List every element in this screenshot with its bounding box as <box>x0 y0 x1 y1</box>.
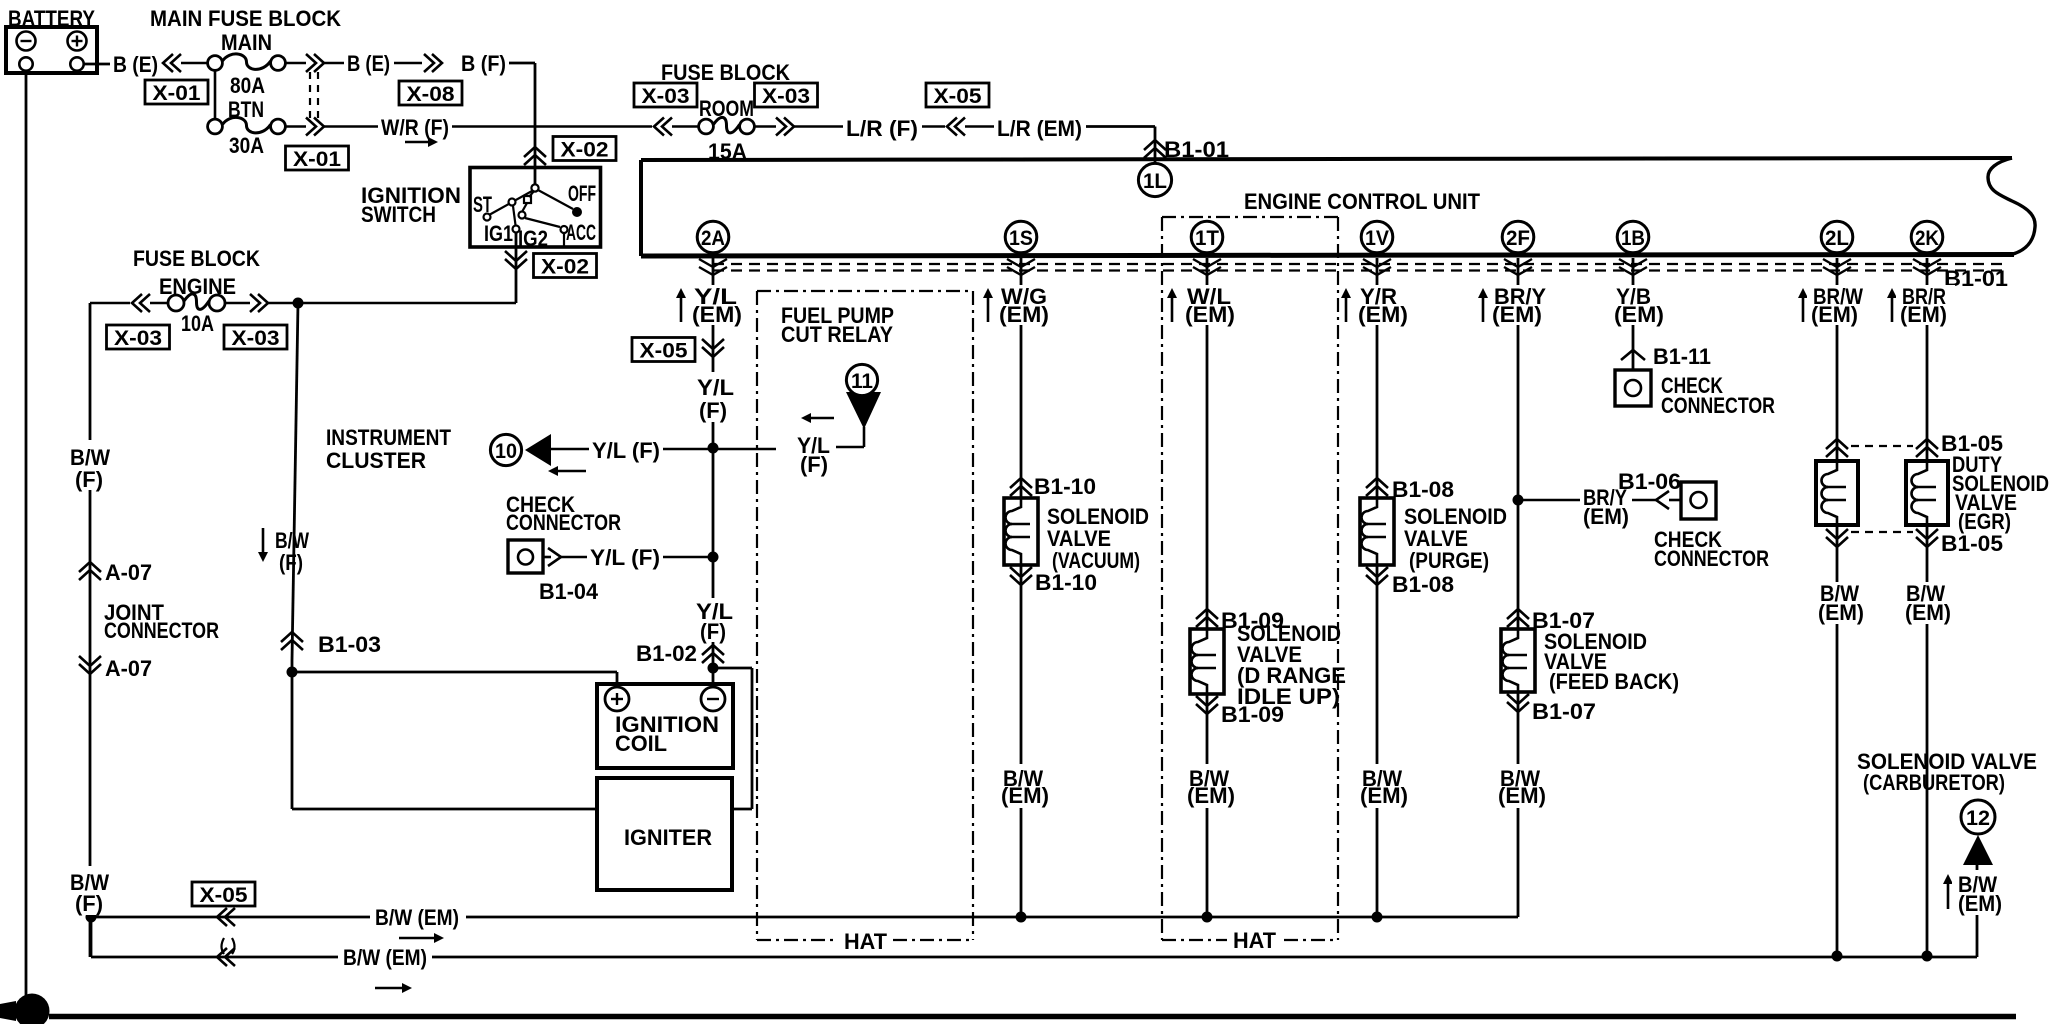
svg-text:X-03: X-03 <box>762 85 810 108</box>
svg-text:B1-05: B1-05 <box>1941 531 2003 556</box>
svg-text:(EM): (EM) <box>1187 783 1235 808</box>
svg-text:B1-04: B1-04 <box>539 579 599 604</box>
svg-text:ACC: ACC <box>566 220 596 245</box>
svg-text:(EM): (EM) <box>1905 600 1951 625</box>
svg-text:1V: 1V <box>1365 227 1389 250</box>
svg-text:B1-06: B1-06 <box>1618 469 1681 494</box>
svg-text:X-05: X-05 <box>934 85 982 108</box>
svg-text:(F): (F) <box>800 452 828 477</box>
svg-text:(EM): (EM) <box>1001 783 1049 808</box>
svg-text:1B: 1B <box>1621 227 1645 250</box>
svg-text:2A: 2A <box>701 227 725 250</box>
svg-text:Y/L: Y/L <box>697 375 734 400</box>
svg-text:X-01: X-01 <box>153 82 201 105</box>
svg-text:1L: 1L <box>1143 170 1167 193</box>
svg-text:1T: 1T <box>1195 227 1219 250</box>
svg-text:2K: 2K <box>1915 227 1939 250</box>
svg-text:B/W (EM): B/W (EM) <box>375 905 459 930</box>
svg-text:B1-10: B1-10 <box>1034 474 1096 499</box>
svg-text:HAT: HAT <box>844 929 888 954</box>
svg-text:80A: 80A <box>230 73 265 98</box>
svg-text:G: G <box>22 998 41 1024</box>
svg-text:(EM): (EM) <box>1498 783 1546 808</box>
svg-text:(EM): (EM) <box>1358 302 1408 327</box>
svg-text:IGNITER: IGNITER <box>624 825 712 850</box>
svg-text:IG1: IG1 <box>484 221 513 246</box>
svg-text:(FEED BACK): (FEED BACK) <box>1549 669 1679 694</box>
svg-text:HAT: HAT <box>1233 928 1277 953</box>
svg-text:B1-07: B1-07 <box>1532 699 1596 724</box>
svg-text:X-03: X-03 <box>114 327 162 350</box>
svg-text:A-07: A-07 <box>105 656 152 681</box>
svg-text:(F): (F) <box>700 619 726 644</box>
svg-text:B (E): B (E) <box>113 52 158 77</box>
svg-text:(EM): (EM) <box>692 302 742 327</box>
svg-text:MAIN FUSE BLOCK: MAIN FUSE BLOCK <box>150 6 341 31</box>
svg-text:(EM): (EM) <box>1360 783 1408 808</box>
svg-text:X-02: X-02 <box>561 139 609 162</box>
svg-text:X-03: X-03 <box>232 327 280 350</box>
svg-text:OFF: OFF <box>568 181 596 206</box>
svg-text:(F): (F) <box>279 550 303 575</box>
svg-text:12: 12 <box>1966 807 1990 830</box>
svg-text:Y/L (F): Y/L (F) <box>590 545 660 570</box>
svg-text:W/R (F): W/R (F) <box>381 115 449 140</box>
svg-text:COIL: COIL <box>615 731 667 756</box>
svg-text:INSTRUMENT: INSTRUMENT <box>326 425 451 450</box>
svg-text:X-03: X-03 <box>642 85 690 108</box>
svg-text:2L: 2L <box>1825 227 1849 250</box>
svg-text:1S: 1S <box>1009 227 1033 250</box>
svg-text:B (F): B (F) <box>461 51 506 76</box>
svg-text:2F: 2F <box>1506 227 1530 250</box>
svg-text:Y/L (F): Y/L (F) <box>592 438 660 463</box>
svg-text:B1-09: B1-09 <box>1221 702 1284 727</box>
svg-text:A-07: A-07 <box>105 560 152 585</box>
svg-text:BATTERY: BATTERY <box>8 6 95 31</box>
svg-text:B1-10: B1-10 <box>1035 570 1097 595</box>
svg-text:B1-08: B1-08 <box>1392 477 1454 502</box>
svg-text:CONNECTOR: CONNECTOR <box>104 618 219 643</box>
svg-text:L/R (EM): L/R (EM) <box>997 116 1082 141</box>
svg-text:B1-08: B1-08 <box>1392 572 1454 597</box>
svg-text:X-05: X-05 <box>200 884 248 907</box>
svg-text:(EM): (EM) <box>1958 891 2002 916</box>
svg-text:(EM): (EM) <box>1492 302 1542 327</box>
svg-text:B1-02: B1-02 <box>636 641 697 666</box>
svg-text:(EM): (EM) <box>999 302 1049 327</box>
svg-text:(F): (F) <box>699 398 727 423</box>
svg-text:CLUSTER: CLUSTER <box>326 448 426 473</box>
svg-text:CONNECTOR: CONNECTOR <box>1654 546 1769 571</box>
svg-text:IG2: IG2 <box>518 226 548 251</box>
svg-text:B (E): B (E) <box>347 51 390 76</box>
svg-text:(EM): (EM) <box>1818 600 1864 625</box>
svg-text:(EM): (EM) <box>1614 302 1664 327</box>
svg-text:B/W (EM): B/W (EM) <box>343 945 427 970</box>
svg-text:10: 10 <box>495 440 517 463</box>
svg-text:(F): (F) <box>75 467 103 492</box>
svg-text:X-05: X-05 <box>640 340 688 363</box>
svg-text:CONNECTOR: CONNECTOR <box>1661 393 1775 418</box>
svg-text:30A: 30A <box>229 133 264 158</box>
svg-text:L/R (F): L/R (F) <box>846 116 918 141</box>
svg-text:(EM): (EM) <box>1900 302 1947 327</box>
svg-text:ST: ST <box>473 192 492 217</box>
svg-text:10A: 10A <box>181 311 214 336</box>
svg-text:B1-11: B1-11 <box>1653 344 1711 369</box>
svg-text:X-08: X-08 <box>407 83 455 106</box>
svg-text:ENGINE: ENGINE <box>159 274 236 299</box>
svg-text:ROOM: ROOM <box>699 96 754 121</box>
svg-text:SWITCH: SWITCH <box>361 202 436 227</box>
svg-text:X-02: X-02 <box>541 256 589 279</box>
svg-text:CONNECTOR: CONNECTOR <box>506 510 621 535</box>
svg-text:MAIN: MAIN <box>221 30 272 55</box>
svg-text:(EM): (EM) <box>1811 302 1858 327</box>
svg-text:CUT RELAY: CUT RELAY <box>781 322 893 347</box>
svg-text:(EM): (EM) <box>1583 504 1629 529</box>
svg-text:FUSE BLOCK: FUSE BLOCK <box>661 60 790 85</box>
svg-text:ENGINE CONTROL UNIT: ENGINE CONTROL UNIT <box>1244 189 1481 214</box>
svg-text:(PURGE): (PURGE) <box>1409 548 1489 573</box>
svg-text:(EM): (EM) <box>1185 302 1235 327</box>
svg-text:(CARBURETOR): (CARBURETOR) <box>1863 770 2005 795</box>
svg-text:X-01: X-01 <box>293 148 341 171</box>
svg-text:B1-03: B1-03 <box>318 632 381 657</box>
svg-text:11: 11 <box>851 370 873 393</box>
svg-text:FUSE BLOCK: FUSE BLOCK <box>133 246 260 271</box>
svg-text:(F): (F) <box>75 891 103 916</box>
